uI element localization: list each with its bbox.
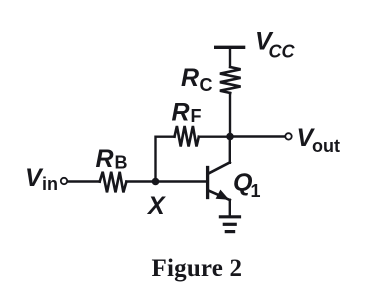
svg-text:CC: CC [269,41,296,61]
transistor Q1 base bar [206,168,209,198]
wire Vin to RB [67,180,99,182]
terminal Vout [285,133,291,139]
terminal Vin [61,178,67,184]
resistor RB [100,172,127,193]
svg-text:R: R [172,98,190,126]
wire RF right lead [199,135,230,137]
transistor Q1 emitter arrow [216,190,230,200]
wire RB to node X to base [126,180,206,182]
ground bar 1 [220,215,239,218]
wire collector up [229,137,231,163]
svg-text:R: R [181,64,199,92]
ground bar 2 [224,223,235,226]
svg-text:B: B [115,153,128,173]
wire VCC stub [229,47,231,67]
svg-text:F: F [191,106,202,126]
wire collector node to Vout [230,135,285,137]
svg-text:Figure 2: Figure 2 [152,255,243,282]
transistor Q1 emitter diagonal [209,191,230,200]
resistor RC [220,67,241,93]
wire RC to collector node [229,93,231,137]
wire emitter down to ground [229,200,231,216]
svg-text:R: R [96,145,114,173]
svg-text:X: X [146,192,166,220]
collector node junction dot [226,133,234,141]
svg-text:1: 1 [251,181,261,201]
svg-text:out: out [312,136,340,156]
svg-text:C: C [200,75,213,95]
transistor Q1 collector diagonal [209,162,230,173]
wire RF left lead + elbow down to node X [156,137,175,182]
ground bar 3 [226,230,233,233]
VCC supply bar [216,46,244,49]
resistor RF [175,126,199,147]
node X junction dot [152,178,160,186]
svg-text:in: in [42,174,58,194]
